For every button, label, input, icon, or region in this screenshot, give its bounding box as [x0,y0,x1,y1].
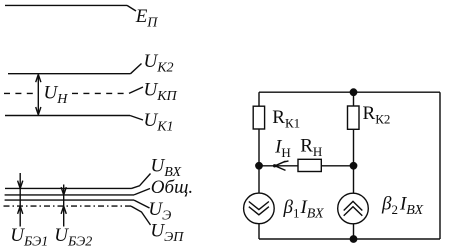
leader to E_P label [127,5,136,11]
dimension arrow U_BE2 [63,185,65,227]
current source Q1 circle [244,193,275,224]
wire: circuit bottom [259,238,440,240]
leader to U_E label [134,200,150,208]
current source Q2 circle [338,193,369,224]
level line U_K2 [8,73,131,75]
svg-text:UН: UН [44,83,69,108]
svg-text:UБЭ1: UБЭ1 [10,225,48,250]
leader to U_VX label [132,174,151,189]
wire: branch2 upper [353,92,355,106]
signal line 1 (input) [5,187,132,189]
svg-text:UБЭ2: UБЭ2 [54,225,92,250]
dashed level line U_KP right part [72,92,129,94]
leader to U_KP label [129,87,143,93]
wire: middle right segment [321,165,353,167]
resistor RH [298,159,321,171]
node B dot [350,162,358,170]
wire: circuit right edge [439,92,441,239]
svg-text:RН: RН [300,135,322,159]
wire: circuit top [259,91,440,93]
svg-text:β2IВХ: β2IВХ [381,194,424,219]
svg-text:RК2: RК2 [363,103,391,127]
svg-text:UЭП: UЭП [150,221,184,246]
current source Q1 chevrons (down) [249,202,269,210]
svg-text:β1IВХ: β1IВХ [283,197,325,222]
current direction arrow I_H [273,164,276,167]
svg-text:Общ.: Общ. [151,177,193,198]
node A dot [255,162,263,170]
svg-text:IН: IН [274,137,291,161]
resistor RK1 [253,106,264,129]
wire: left branch upper [258,92,260,106]
node top dot [350,88,358,96]
supply level line E_P [5,4,127,6]
signal line 3 (emitter) [5,199,134,201]
leader to U_EP label [131,206,151,225]
signal line 2 (common) [5,194,134,196]
dimension arrow U_BE1 [19,173,21,227]
level line U_K1 [5,115,130,117]
leader to U_K2 label [131,64,142,74]
wire: left branch middle [258,129,260,193]
svg-text:EП: EП [135,6,159,31]
wire: branch2 middle [353,129,355,193]
current source Q2 chevrons (up) [344,201,363,210]
wire: middle left segment [259,165,298,167]
wire: branch2 bottom [353,224,355,239]
svg-text:UКП: UКП [144,80,178,105]
node bottom dot [350,235,358,243]
dashed level line U_KP left part [4,92,33,94]
resistor RK2 [348,106,360,129]
leader to U_K1 label [130,116,143,121]
svg-text:UК2: UК2 [144,51,174,76]
dimension arrow U_H [37,74,39,114]
wire: left branch bottom [258,224,260,239]
leader to Obsh label [134,189,150,195]
svg-text:UК1: UК1 [144,110,174,135]
dash-dot line U_EP level [4,205,132,207]
svg-text:RК1: RК1 [272,107,300,131]
